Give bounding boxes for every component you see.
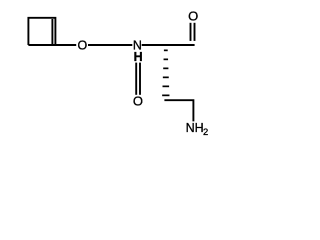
C=O double bond (aldehyde) xyxy=(190,23,192,41)
svg-text:O: O xyxy=(78,38,88,52)
svg-text:H: H xyxy=(134,50,143,64)
double bond inner line xyxy=(51,19,53,44)
wire O to N xyxy=(88,44,132,46)
wire chain to NH2 xyxy=(164,100,193,121)
svg-text:O: O xyxy=(188,8,198,23)
hashed wedge bond xyxy=(162,50,169,97)
cyclobutene ring xyxy=(28,18,55,45)
svg-text:O: O xyxy=(133,94,143,109)
wire ring to O xyxy=(55,44,76,46)
N=O double bond xyxy=(135,63,137,95)
wire N to carbonyl C xyxy=(142,44,195,46)
